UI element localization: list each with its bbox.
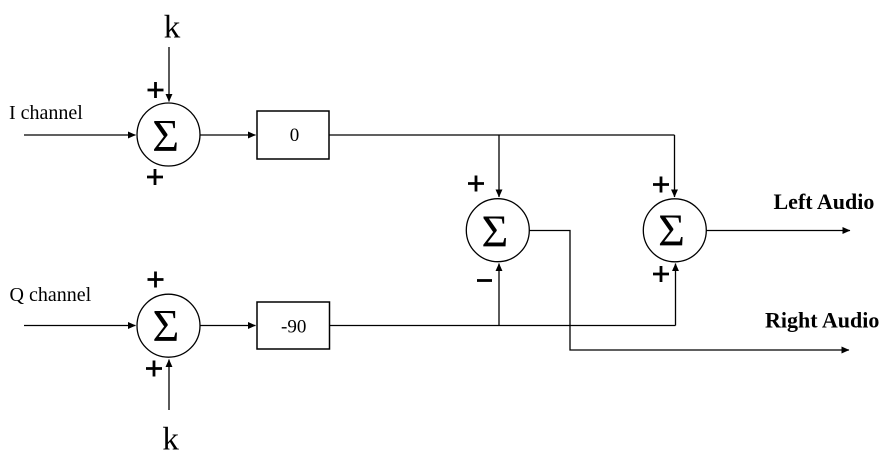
wire k bottom into summer S2 <box>168 360 170 411</box>
svg-text:k: k <box>162 422 179 458</box>
wire k top into summer S1 <box>168 47 170 102</box>
svg-text:-90: -90 <box>281 317 306 338</box>
phase block -90 rectangle <box>257 302 330 349</box>
minus sign (bottom input of S3) <box>477 279 492 282</box>
wire branch down to summer S4 top <box>674 135 676 197</box>
svg-text:Right Audio: Right Audio <box>765 308 879 333</box>
svg-text:Q channel: Q channel <box>10 284 92 306</box>
plus sign (bottom input of S2) <box>146 361 162 377</box>
wire branch up to summer S4 bottom <box>675 264 677 326</box>
wire block -90 output bus to right <box>330 325 676 327</box>
svg-text:Σ: Σ <box>153 300 180 351</box>
svg-text:k: k <box>164 10 181 46</box>
wire I channel input into S1 <box>24 134 136 136</box>
svg-text:0: 0 <box>290 125 300 146</box>
summer U1 circle <box>137 103 200 166</box>
wire Q channel input into S2 <box>24 325 136 327</box>
wire S4 output Left Audio <box>707 230 851 232</box>
wire block 0 output bus to right <box>329 134 675 136</box>
plus sign (bottom input of S4) <box>653 266 669 282</box>
phase block 0 rectangle <box>257 111 329 159</box>
svg-text:Σ: Σ <box>152 110 179 161</box>
summer U4 circle <box>643 199 706 262</box>
plus sign (top input of S4) <box>653 177 669 193</box>
summer U3 circle <box>466 199 529 262</box>
wire branch down to summer S3 top <box>498 135 500 197</box>
svg-text:Σ: Σ <box>658 205 685 256</box>
plus sign (top input of S1) <box>148 82 164 98</box>
plus sign (left input of S1, below circle) <box>147 169 163 185</box>
plus sign (top input of S2) <box>148 272 164 288</box>
wire S2 output to block -90 <box>200 325 256 327</box>
wire S3 output Right Audio (right, down, right) <box>530 231 850 351</box>
wire S1 output to block 0 <box>200 134 256 136</box>
svg-text:Left Audio: Left Audio <box>774 189 875 214</box>
summer U2 circle <box>137 294 200 357</box>
svg-text:Σ: Σ <box>482 205 509 256</box>
svg-text:I channel: I channel <box>9 102 83 124</box>
wire branch up to summer S3 bottom <box>498 264 500 326</box>
plus sign (top input of S3) <box>468 176 484 192</box>
